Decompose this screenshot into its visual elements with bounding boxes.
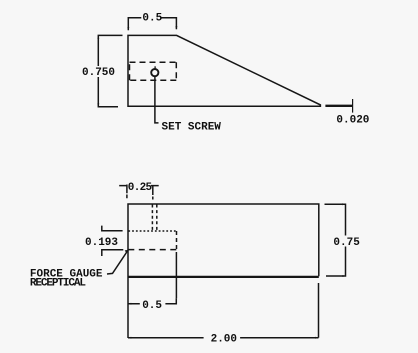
svg-text:0.5: 0.5	[142, 300, 162, 312]
dimension text 0.75	[332, 236, 360, 250]
receptacle dotted top line	[128, 230, 176, 232]
receptacle dashed bottom line	[128, 249, 176, 251]
dimension 0.5 bottom	[128, 298, 176, 305]
block outline bottom	[128, 204, 319, 338]
set screw leader	[155, 77, 159, 123]
svg-text:0.25: 0.25	[128, 182, 153, 194]
wedge top outline	[128, 35, 320, 106]
svg-text:0.020: 0.020	[336, 114, 369, 126]
svg-text:0.75: 0.75	[333, 237, 360, 249]
svg-text:RECEPTICAL: RECEPTICAL	[30, 278, 87, 290]
extension line right for 2.00	[318, 283, 320, 338]
extension line for 0.5 bottom	[175, 252, 177, 298]
receptacle dashed right line	[176, 231, 178, 250]
set screw circle	[151, 69, 158, 76]
leader force gauge	[107, 250, 128, 274]
dimension 0.750 left	[97, 35, 122, 106]
dimension 2.00	[128, 337, 319, 339]
svg-text:0.193: 0.193	[85, 237, 118, 249]
set screw hidden boss (dashed rect)	[130, 62, 177, 80]
svg-text:0.5: 0.5	[142, 13, 162, 25]
svg-text:2.00: 2.00	[211, 334, 237, 346]
dimension 0.193 brackets	[102, 226, 124, 256]
svg-text:SET SCREW: SET SCREW	[162, 121, 222, 133]
block slot thick bottom line	[128, 276, 319, 278]
centerline stub above circle	[154, 66, 156, 69]
dimension 0.020 tick	[352, 99, 354, 113]
dimension 0.75 right bracket	[325, 203, 346, 277]
dimension text 0.750	[81, 66, 117, 79]
dimension 0.5 top bracket	[127, 18, 177, 31]
dimension 0.25	[119, 185, 159, 200]
hidden slot dashed lines	[152, 205, 156, 232]
dimension 0.020 thickness bar	[325, 105, 352, 107]
svg-text:0.750: 0.750	[82, 67, 115, 79]
